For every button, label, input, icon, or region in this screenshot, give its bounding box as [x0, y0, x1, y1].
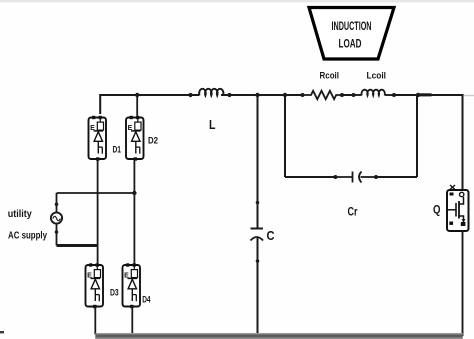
svg-text:INDUCTION: INDUCTION: [332, 21, 372, 33]
inductor Lcoil: [354, 90, 394, 96]
wire: D2 bottom to D4 top: [133, 159, 135, 265]
node: Cr right terminal: [374, 175, 378, 179]
wire: tank left vertical: [284, 95, 286, 177]
wire: rail to top-right corner down to Q collector: [418, 95, 463, 190]
diode module D3: [86, 263, 119, 308]
inductor L: [191, 89, 230, 96]
wire: tank bottom right segment: [376, 176, 417, 178]
wire: rail drop to D2: [136, 95, 138, 116]
igbt Q: [447, 185, 469, 231]
wire: AC bottom feeder (thick): [57, 244, 99, 247]
svg-text:AC supply: AC supply: [8, 231, 47, 242]
wire: rail from L to capacitor C tap: [230, 94, 258, 96]
node: Cr left terminal: [333, 175, 337, 179]
svg-text:utility: utility: [8, 209, 32, 220]
svg-text:Q: Q: [433, 203, 441, 217]
ac source utility supply: [51, 193, 62, 246]
wire: tank bottom left segment: [285, 176, 335, 178]
node: C bottom terminal dot: [256, 259, 260, 263]
wire: Q emitter to ground rail: [462, 231, 464, 336]
wire: rail to Rcoil: [285, 94, 303, 96]
svg-text:C: C: [267, 228, 276, 243]
svg-text:Lcoil: Lcoil: [367, 71, 387, 82]
node: inductor L right terminal: [227, 93, 231, 97]
node: junction C tap: [255, 93, 259, 97]
svg-text:LOAD: LOAD: [339, 39, 362, 51]
node: Rcoil right terminal: [340, 93, 344, 97]
wire: between Rcoil and Lcoil: [342, 94, 354, 96]
wire: C plate to bottom with terminal dot: [257, 238, 259, 335]
node: inductor L left terminal: [188, 93, 192, 97]
wire: AC top feeder: [57, 192, 135, 194]
capacitor C: [251, 229, 264, 241]
svg-text:Cr: Cr: [348, 205, 358, 219]
node: Rcoil left terminal: [301, 93, 305, 97]
diode module D2: [126, 116, 158, 161]
svg-text:D1: D1: [113, 144, 122, 154]
induction load annotation: [309, 8, 394, 60]
wire: faint rail continuation to right edge: [463, 95, 474, 97]
wire: top rail left segment: [100, 95, 190, 114]
svg-text:Rcoil: Rcoil: [320, 71, 340, 82]
resistor Rcoil: [303, 91, 342, 99]
svg-text:D4: D4: [142, 295, 150, 305]
wire: D1 bottom to D3 top: [97, 159, 99, 265]
node: Lcoil right terminal: [392, 93, 396, 97]
node: D2 top junction: [135, 93, 139, 97]
wire: D3 bottom to ground rail: [94, 306, 96, 335]
capacitor Cr: [335, 172, 376, 183]
wire: D4 bottom to ground rail: [131, 306, 133, 335]
svg-text:L: L: [209, 117, 216, 132]
wire: rail Lcoil to tank right junction: [394, 94, 418, 96]
wire: rail junction smear segment: [417, 93, 432, 96]
wire: rail from C tap to tank left corner: [258, 94, 286, 96]
wire: C terminal to plate: [257, 203, 259, 229]
wire: capacitor C branch upper: [257, 95, 259, 202]
wire: tank right vertical: [416, 95, 418, 177]
svg-text:D2: D2: [148, 136, 158, 146]
diode module D1: [89, 116, 122, 161]
svg-text:D3: D3: [110, 287, 119, 297]
node: AC top feeder junction: [132, 191, 136, 195]
wire: ground rail: [95, 333, 463, 339]
diode module D4: [123, 263, 151, 308]
node: C top terminal dot: [256, 201, 260, 205]
node: tank left junction: [283, 93, 287, 97]
wire: left margin stub: [0, 331, 4, 333]
node: Lcoil left terminal: [352, 93, 356, 97]
node: tank right junction: [416, 93, 420, 97]
